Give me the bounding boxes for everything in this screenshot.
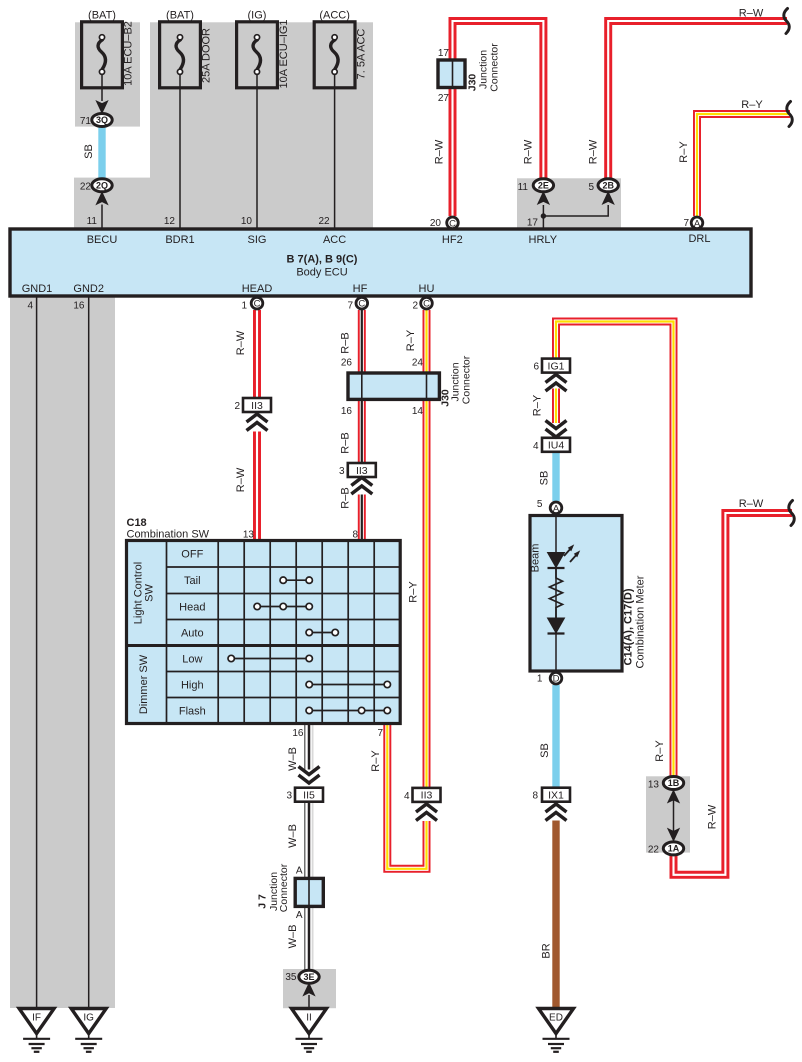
svg-text:17: 17	[438, 48, 450, 59]
svg-text:24: 24	[412, 358, 424, 369]
svg-text:IG1: IG1	[548, 360, 565, 372]
svg-text:Beam: Beam	[530, 544, 542, 573]
svg-text:Combination Meter: Combination Meter	[635, 575, 647, 668]
svg-text:ED: ED	[549, 1013, 563, 1024]
svg-text:(ACC): (ACC)	[319, 10, 350, 22]
svg-text:(BAT): (BAT)	[88, 10, 116, 22]
svg-text:D: D	[553, 674, 560, 685]
svg-text:SB: SB	[539, 471, 551, 486]
svg-text:SW: SW	[144, 584, 156, 602]
svg-text:13: 13	[243, 530, 255, 541]
svg-text:R–W: R–W	[739, 498, 764, 510]
svg-text:C14(A), C17(D): C14(A), C17(D)	[623, 588, 635, 665]
svg-text:12: 12	[164, 216, 176, 227]
svg-text:17: 17	[527, 218, 539, 229]
svg-text:2B: 2B	[602, 181, 614, 191]
svg-text:6: 6	[533, 362, 539, 373]
svg-text:R–W: R–W	[739, 8, 764, 20]
svg-text:A: A	[296, 866, 303, 877]
svg-text:HF: HF	[353, 283, 368, 295]
svg-text:10A ECU–IG1: 10A ECU–IG1	[278, 19, 290, 88]
svg-text:11: 11	[87, 216, 98, 227]
svg-text:IG: IG	[83, 1013, 94, 1024]
svg-text:II: II	[306, 1013, 312, 1024]
svg-text:II5: II5	[303, 790, 315, 802]
svg-text:71: 71	[80, 116, 92, 127]
svg-text:4: 4	[404, 791, 410, 802]
svg-text:2Q: 2Q	[96, 181, 108, 191]
svg-text:16: 16	[341, 406, 353, 417]
svg-text:2: 2	[412, 301, 418, 312]
svg-text:R–Y: R–Y	[678, 141, 690, 163]
svg-text:Connector: Connector	[461, 355, 473, 404]
svg-text:A: A	[553, 503, 560, 514]
svg-text:7: 7	[347, 301, 353, 312]
svg-text:HEAD: HEAD	[242, 283, 273, 295]
svg-text:OFF: OFF	[181, 549, 203, 561]
svg-text:5: 5	[588, 182, 594, 193]
svg-text:7: 7	[683, 218, 689, 229]
svg-text:B 7(A), B 9(C): B 7(A), B 9(C)	[287, 254, 358, 266]
svg-text:16: 16	[73, 301, 85, 312]
svg-text:11: 11	[518, 182, 529, 193]
svg-text:BDR1: BDR1	[165, 234, 194, 246]
svg-text:C: C	[449, 218, 456, 229]
svg-text:3Q: 3Q	[96, 115, 108, 125]
svg-text:Dimmer SW: Dimmer SW	[138, 654, 150, 714]
svg-text:R–Y: R–Y	[741, 99, 763, 111]
svg-text:26: 26	[341, 358, 353, 369]
svg-text:R–W: R–W	[235, 467, 247, 492]
svg-text:3E: 3E	[303, 972, 314, 982]
svg-text:22: 22	[80, 182, 92, 193]
svg-text:14: 14	[412, 406, 424, 417]
svg-text:HU: HU	[419, 283, 435, 295]
svg-text:II3: II3	[421, 790, 433, 802]
svg-text:II3: II3	[251, 400, 263, 412]
svg-text:R–W: R–W	[235, 330, 247, 355]
svg-text:BECU: BECU	[87, 234, 118, 246]
svg-text:Combination SW: Combination SW	[127, 529, 210, 541]
svg-text:R–W: R–W	[434, 139, 446, 164]
svg-text:HF2: HF2	[442, 234, 463, 246]
svg-text:R–W: R–W	[707, 804, 719, 829]
svg-text:R–Y: R–Y	[370, 750, 382, 772]
svg-text:5: 5	[537, 499, 543, 510]
svg-text:Body ECU: Body ECU	[296, 267, 347, 279]
svg-text:GND1: GND1	[22, 283, 53, 295]
svg-text:10A ECU–B2: 10A ECU–B2	[123, 21, 135, 86]
svg-text:BR: BR	[541, 943, 553, 958]
svg-text:7. 5A ACC: 7. 5A ACC	[356, 29, 368, 80]
svg-text:R–B: R–B	[340, 487, 352, 508]
svg-text:Flash: Flash	[179, 706, 206, 718]
svg-text:22: 22	[318, 216, 330, 227]
svg-text:2E: 2E	[538, 181, 549, 191]
svg-text:ACC: ACC	[323, 234, 346, 246]
svg-text:SB: SB	[539, 743, 551, 758]
svg-text:C: C	[254, 299, 261, 310]
svg-text:10: 10	[241, 216, 253, 227]
svg-text:W–B: W–B	[287, 747, 299, 771]
svg-text:C18: C18	[127, 517, 147, 529]
svg-text:II3: II3	[356, 465, 368, 477]
svg-text:1B: 1B	[668, 778, 680, 788]
svg-text:IX1: IX1	[548, 790, 564, 802]
svg-text:R–Y: R–Y	[407, 581, 419, 603]
svg-text:3: 3	[286, 791, 292, 802]
svg-text:2: 2	[234, 401, 240, 412]
svg-text:1: 1	[241, 301, 247, 312]
svg-text:16: 16	[292, 728, 304, 739]
svg-text:SB: SB	[83, 144, 95, 159]
svg-text:R–Y: R–Y	[532, 394, 544, 416]
svg-text:3: 3	[339, 466, 345, 477]
svg-text:Low: Low	[182, 654, 202, 666]
svg-text:SIG: SIG	[248, 234, 267, 246]
svg-text:IU4: IU4	[548, 440, 565, 452]
svg-text:27: 27	[438, 93, 450, 104]
svg-text:Connector: Connector	[489, 43, 501, 92]
svg-text:7: 7	[377, 728, 383, 739]
svg-text:Auto: Auto	[181, 628, 204, 640]
svg-text:R–Y: R–Y	[654, 740, 666, 762]
svg-text:GND2: GND2	[73, 283, 104, 295]
svg-text:4: 4	[27, 301, 33, 312]
svg-text:8: 8	[352, 530, 358, 541]
svg-text:A: A	[694, 218, 701, 229]
svg-text:Head: Head	[179, 602, 205, 614]
svg-text:IF: IF	[32, 1013, 41, 1024]
svg-text:1A: 1A	[668, 844, 680, 854]
svg-text:(BAT): (BAT)	[166, 10, 194, 22]
svg-text:(IG): (IG)	[248, 10, 267, 22]
svg-text:R–W: R–W	[523, 139, 535, 164]
svg-text:R–W: R–W	[588, 139, 600, 164]
svg-text:1: 1	[537, 674, 543, 685]
svg-text:20: 20	[430, 218, 442, 229]
svg-text:Tail: Tail	[184, 575, 201, 587]
svg-text:J 7: J 7	[257, 894, 269, 909]
svg-text:DRL: DRL	[688, 233, 710, 245]
svg-text:R–B: R–B	[340, 332, 352, 353]
svg-text:W–B: W–B	[287, 925, 299, 949]
svg-text:C: C	[358, 299, 365, 310]
svg-text:13: 13	[648, 780, 660, 791]
svg-text:25A DOOR: 25A DOOR	[201, 28, 213, 83]
svg-text:4: 4	[533, 441, 539, 452]
svg-text:22: 22	[648, 845, 660, 856]
svg-text:R–B: R–B	[340, 432, 352, 453]
svg-text:8: 8	[532, 791, 538, 802]
svg-text:HRLY: HRLY	[529, 234, 558, 246]
svg-text:High: High	[181, 680, 204, 692]
svg-text:W–B: W–B	[287, 824, 299, 848]
svg-text:C: C	[423, 299, 430, 310]
svg-text:Connector: Connector	[278, 863, 290, 912]
svg-text:R–Y: R–Y	[405, 329, 417, 351]
svg-text:A: A	[296, 910, 303, 921]
svg-text:35: 35	[285, 972, 297, 983]
